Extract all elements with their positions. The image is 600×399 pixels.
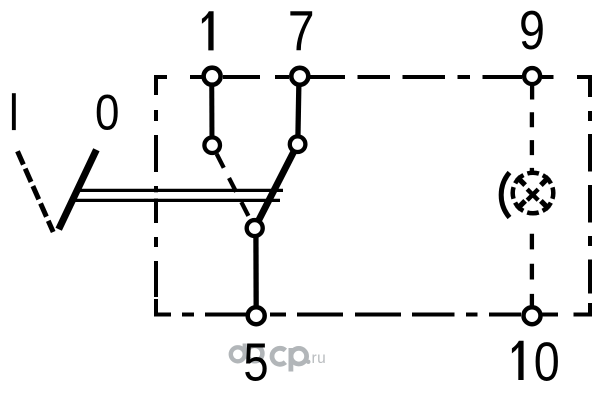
svg-text:5: 5: [243, 332, 268, 393]
label terminal 10: [512, 341, 524, 380]
wire terminal1 to contact A: [209, 76, 214, 145]
indicator lamp (dashed circle with X): [501, 173, 553, 218]
dashed alternate contact path (contact A to pivot): [217, 154, 250, 219]
terminal 7: [291, 68, 308, 85]
svg-text:0: 0: [534, 331, 560, 392]
switch housing border: bottom side (dash-dot) y=314.5: [156, 313, 590, 317]
svg-text:ru: ru: [312, 350, 327, 367]
terminal 10: [524, 307, 541, 324]
terminal 5: [248, 307, 265, 324]
white mask hiding border dash between push rod lines: [100, 192, 270, 198]
switch housing border: right side (dash-dot) x=590: [588, 75, 592, 317]
push rod double line: [72, 190, 283, 200]
fixed contact A (below terminal 1): [204, 137, 220, 153]
dashed wire lamp to terminal 10: [530, 234, 534, 315]
wire terminal 9 stub: [530, 80, 534, 100]
actuator lever position 0 (solid): [59, 150, 97, 230]
wire terminal7 to contact B: [298, 76, 299, 144]
dashed wire terminal 9 to lamp: [530, 112, 534, 174]
wire pivot to terminal 5: [253, 228, 259, 316]
moving contact arm (closed, contact B to pivot): [255, 144, 298, 228]
pivot contact: [247, 220, 263, 236]
label position I: [12, 93, 16, 130]
svg-text:7: 7: [288, 1, 315, 63]
svg-text:0: 0: [95, 85, 119, 142]
svg-text:9: 9: [519, 0, 545, 61]
terminal 9: [524, 68, 540, 84]
terminal 1: [204, 68, 221, 85]
switch housing border: top side (dash-dot) y=77: [156, 75, 592, 79]
actuator lever position I (dashed): [18, 151, 54, 232]
switch housing border: left side (dash-dot) x=156: [154, 75, 158, 317]
label terminal 1: [202, 11, 214, 50]
watermark dcp.ru logo: [231, 344, 326, 372]
fixed contact B (below terminal 7): [290, 136, 306, 152]
